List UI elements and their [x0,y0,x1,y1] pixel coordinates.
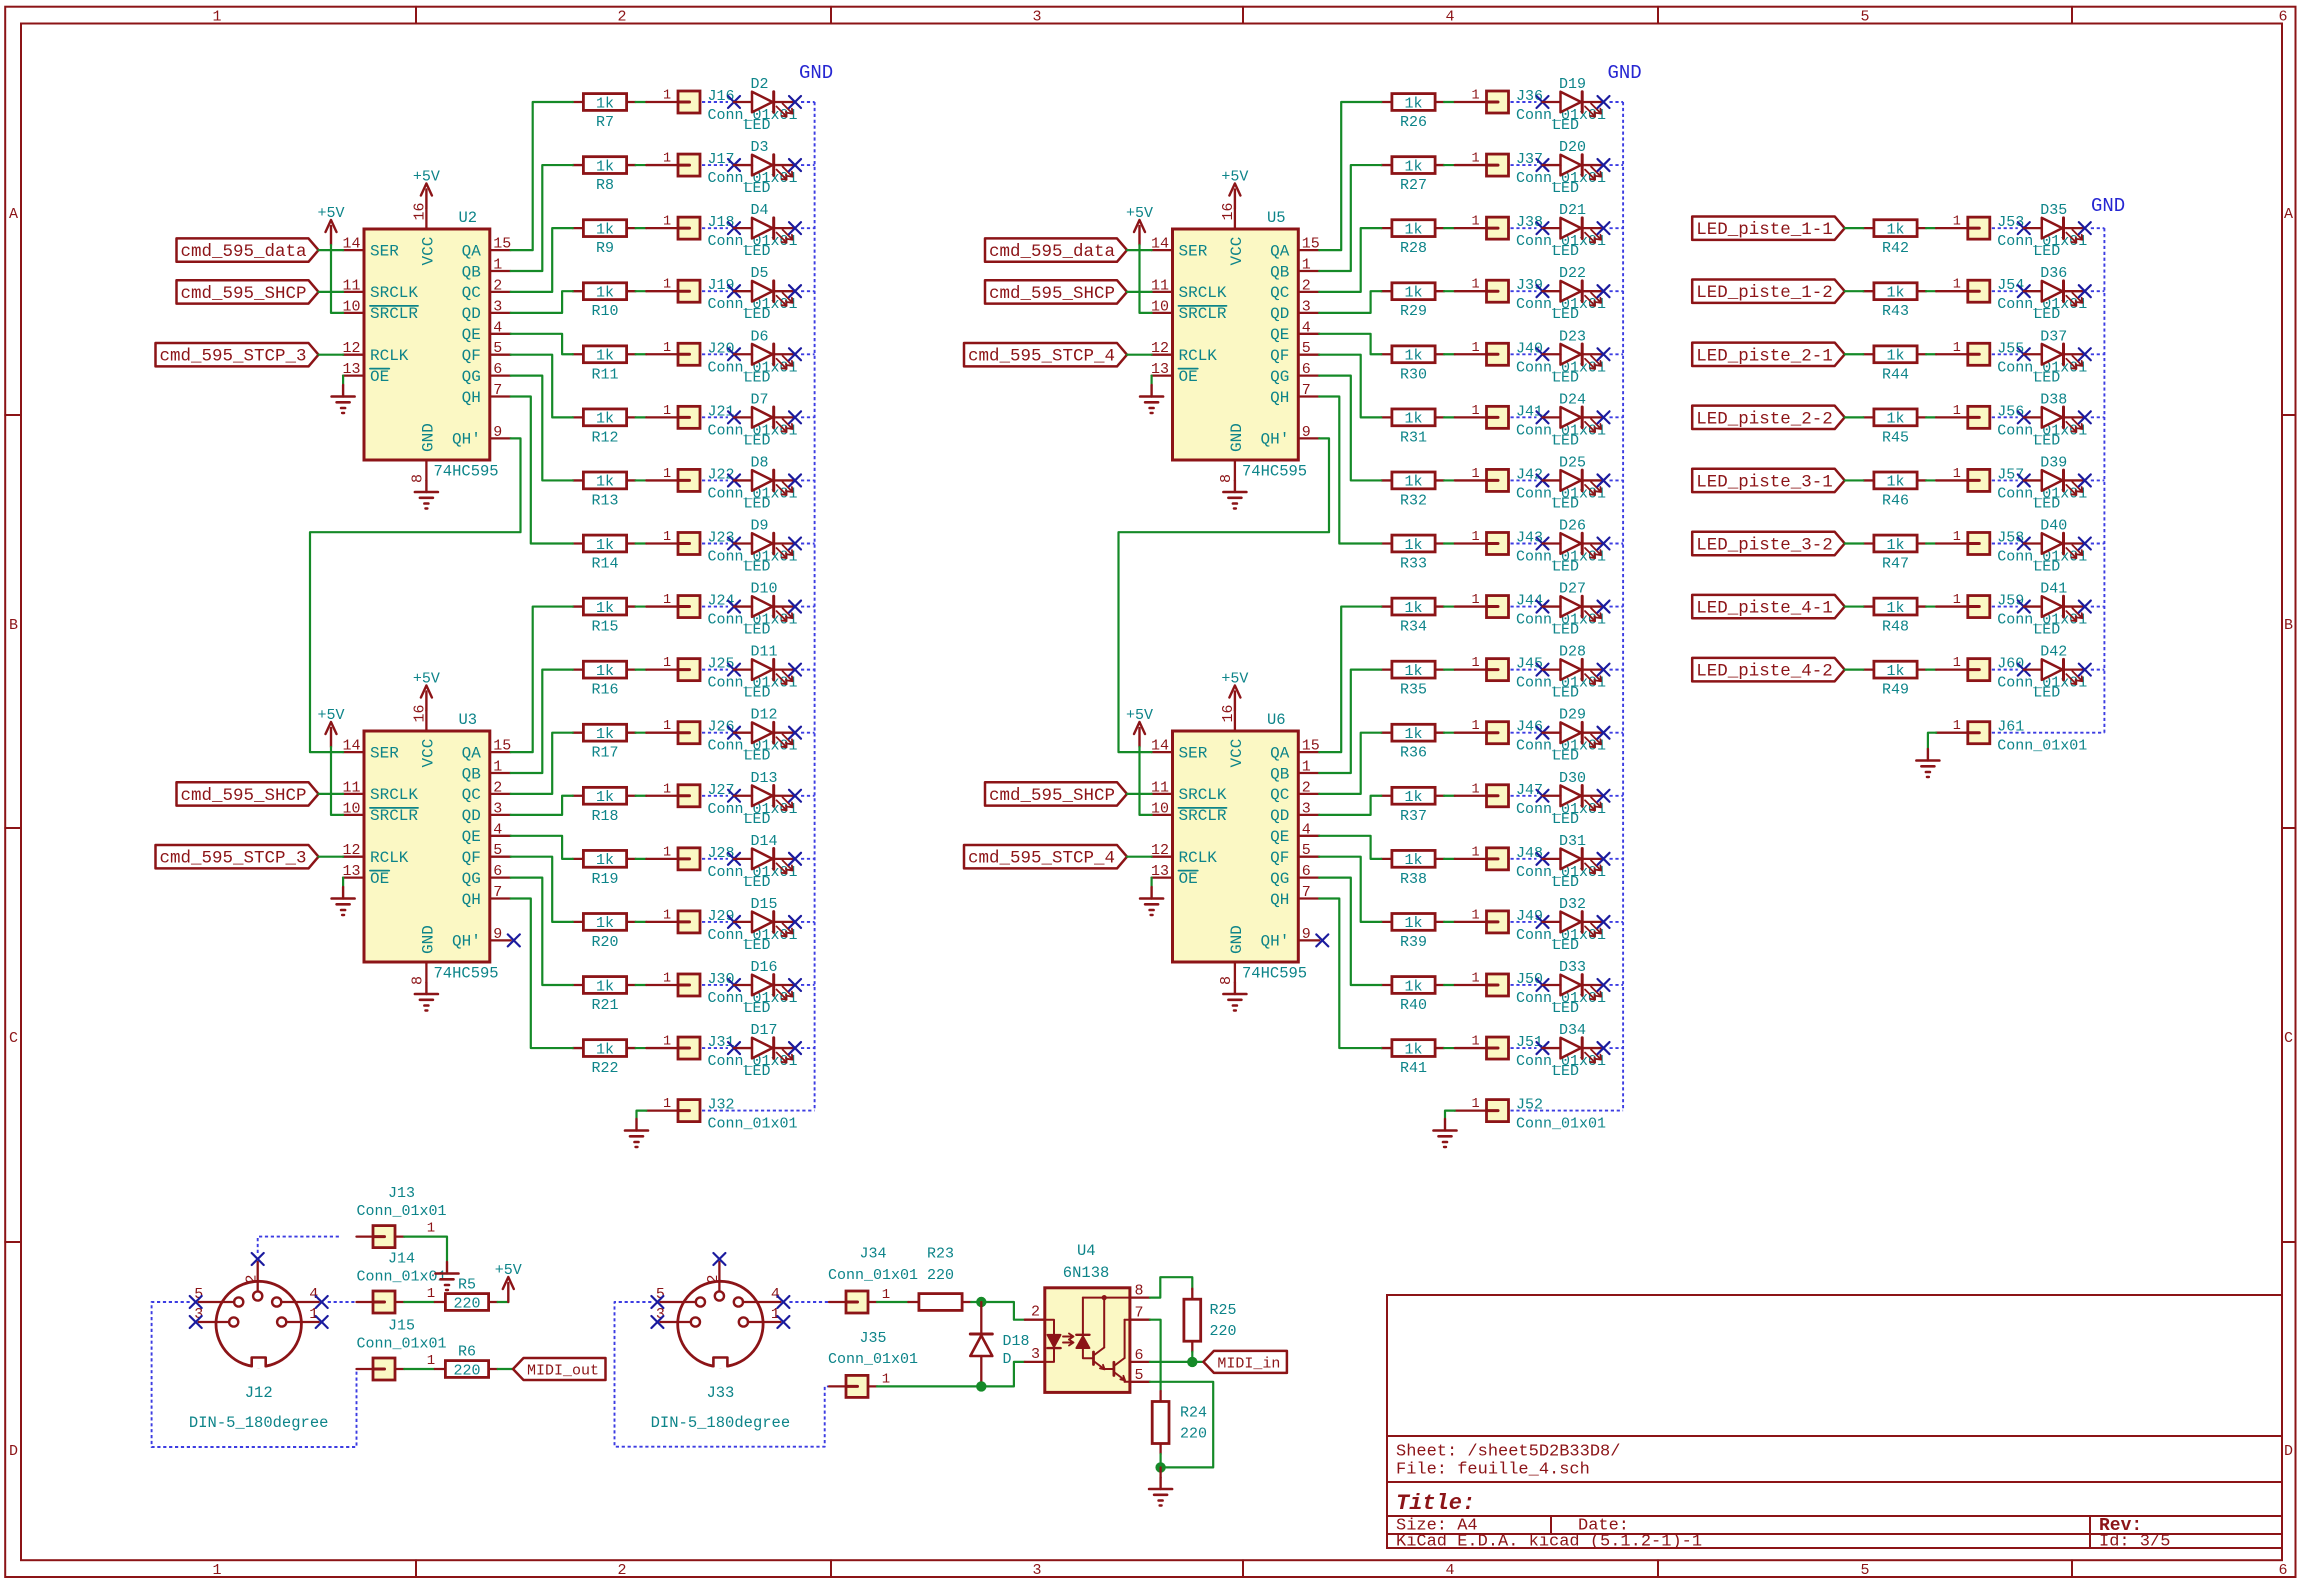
svg-text:D35: D35 [2040,202,2067,219]
svg-text:1: 1 [663,971,671,986]
svg-text:13: 13 [1151,863,1169,880]
wire [511,836,573,859]
svg-text:D16: D16 [751,959,778,976]
power +5V [1126,205,1153,245]
svg-text:QD: QD [1270,305,1289,323]
svg-text:14: 14 [1151,236,1169,253]
LED D24 [1543,391,1604,449]
connector J32 [646,1097,797,1133]
no-connect [2079,474,2091,486]
svg-text:1: 1 [1471,89,1479,104]
svg-text:1k: 1k [1404,978,1422,995]
svg-text:LED: LED [744,937,771,954]
svg-text:1: 1 [663,152,671,167]
svg-text:LED: LED [2033,558,2060,575]
svg-text:1k: 1k [1404,221,1422,238]
svg-text:1: 1 [1471,1097,1479,1112]
no-connect [728,1042,740,1054]
hierarchical label cmd_595_STCP_4 [964,343,1127,367]
wire dashed J44 to D27 [1511,606,1537,608]
connector J53 [1936,214,2087,250]
svg-text:QB: QB [462,263,481,281]
hierarchical label LED_piste_1-2 [1692,280,1845,304]
svg-text:1: 1 [309,1306,318,1323]
junction [976,1297,986,1307]
svg-text:U6: U6 [1267,711,1286,729]
svg-text:QG: QG [462,368,481,386]
svg-text:1: 1 [1302,257,1311,274]
svg-text:12: 12 [342,842,360,859]
wire [1319,733,1381,794]
wire dashed D29 to GND bus [1610,732,1624,734]
svg-text:cmd_595_SHCP: cmd_595_SHCP [989,786,1115,806]
svg-text:74HC595: 74HC595 [1242,965,1307,983]
wire J13 to ground [404,1237,447,1262]
wire R38 to J48 [1444,858,1455,860]
wire dashed D27 to GND bus [1610,606,1624,608]
wire dashed D4 to GND bus [801,227,815,229]
svg-text:U4: U4 [1077,1242,1096,1260]
svg-text:LED: LED [1552,1063,1579,1080]
wire [511,334,573,354]
LED D25 [1543,454,1604,512]
LED D32 [1543,896,1604,954]
svg-text:cmd_595_data: cmd_595_data [989,242,1115,262]
svg-text:J32: J32 [708,1097,735,1114]
svg-text:LED: LED [1552,685,1579,702]
wire dashed D17 to GND bus [801,1047,815,1049]
svg-text:B: B [2284,617,2293,634]
svg-text:GND: GND [1228,925,1246,954]
resistor R46 [1863,472,1926,509]
no-connect [1598,601,1610,613]
svg-text:6: 6 [1302,863,1311,880]
wire [511,165,573,271]
svg-text:D13: D13 [751,770,778,787]
GND net bus (dashed) [2103,228,2105,733]
svg-text:1k: 1k [596,411,614,428]
no-connect [1598,537,1610,549]
svg-text:D7: D7 [751,391,769,408]
wire dashed D23 to GND bus [1610,353,1624,355]
wire dashed J55 to D37 [1992,353,2018,355]
svg-text:QB: QB [1270,263,1289,281]
wire dashed J16 to D2 [702,101,728,103]
svg-text:R38: R38 [1400,871,1427,888]
svg-text:SRCLK: SRCLK [1179,284,1227,302]
no-connect [1598,96,1610,108]
resistor R48 [1863,598,1926,635]
wire dashed D33 to GND bus [1610,984,1624,986]
svg-text:LED: LED [744,558,771,575]
wire J61 to ground [1928,733,1936,749]
svg-text:15: 15 [493,236,511,253]
svg-text:6: 6 [493,361,502,378]
svg-text:R28: R28 [1400,240,1427,257]
svg-text:cmd_595_STCP_4: cmd_595_STCP_4 [968,849,1115,869]
power +5V [1221,671,1248,711]
wire R21 to J30 [636,984,647,986]
wire dashed D28 to GND bus [1610,669,1624,671]
resistor R16 [573,661,636,698]
no-connect [789,916,801,928]
svg-text:D25: D25 [1559,454,1586,471]
svg-text:1k: 1k [596,95,614,112]
wire R40 to J50 [1444,984,1455,986]
svg-text:1: 1 [1471,782,1479,797]
wire [511,878,573,985]
wire dashed D35 to GND bus [2091,227,2105,229]
svg-text:R6: R6 [458,1343,476,1360]
no-connect [789,159,801,171]
svg-text:1k: 1k [596,789,614,806]
no-connect [1537,790,1549,802]
svg-text:QH: QH [462,891,481,909]
svg-text:1: 1 [882,1287,890,1303]
ground [415,983,438,1011]
svg-text:LED: LED [744,685,771,702]
no-connect [1537,222,1549,234]
svg-text:D30: D30 [1559,770,1586,787]
svg-text:R13: R13 [591,492,618,509]
svg-text:1k: 1k [1886,285,1904,302]
connector J22 [646,466,797,502]
svg-text:cmd_595_SHCP: cmd_595_SHCP [181,786,307,806]
wire R32 to J42 [1444,479,1455,481]
resistor R5 [435,1276,498,1312]
svg-text:1: 1 [212,9,221,26]
no-connect [728,474,740,486]
no-connect [1537,348,1549,360]
svg-text:R35: R35 [1400,682,1427,699]
resistor R14 [573,535,636,572]
wire [319,354,344,356]
LED D26 [1543,517,1604,575]
wire [1319,334,1381,354]
svg-text:LED: LED [1552,180,1579,197]
wire [1150,376,1152,385]
svg-text:6: 6 [1302,361,1311,378]
svg-text:D15: D15 [751,896,778,913]
svg-text:6: 6 [2278,9,2287,26]
wire [1127,291,1152,293]
ground [1223,983,1246,1011]
no-connect [2018,474,2030,486]
wire R26 to J36 [1444,101,1455,103]
LED D16 [734,959,795,1017]
svg-text:8: 8 [1218,474,1235,483]
wire dashed D13 to GND bus [801,795,815,797]
no-connect [1537,159,1549,171]
svg-text:RCLK: RCLK [370,849,409,867]
svg-text:C: C [9,1030,18,1047]
svg-text:D40: D40 [2040,517,2067,534]
LED D4 [734,202,795,260]
wire [1319,165,1381,271]
resistor R44 [1863,346,1926,383]
svg-text:11: 11 [1151,779,1169,796]
svg-text:LED: LED [1552,874,1579,891]
svg-text:1k: 1k [1404,789,1422,806]
wire dashed J53 to D35 [1992,227,2018,229]
connector J16 [646,88,797,124]
wire dashed J26 to D12 [702,732,728,734]
ground [436,1262,459,1290]
no-connect [1598,1042,1610,1054]
hierarchical label cmd_595_STCP_3 [156,343,319,367]
svg-text:QH': QH' [1260,933,1289,951]
no-connect [651,1316,663,1328]
svg-text:1k: 1k [1886,221,1904,238]
wire J34 to R23 [877,1301,908,1303]
svg-text:1k: 1k [596,348,614,365]
svg-text:13: 13 [342,361,360,378]
svg-text:220: 220 [1180,1426,1207,1443]
no-connect [713,1253,725,1265]
svg-text:VCC: VCC [419,739,437,768]
no-connect [2079,348,2091,360]
svg-text:7: 7 [1302,382,1311,399]
svg-text:D: D [9,1443,18,1460]
hierarchical label LED_piste_3-2 [1692,532,1845,556]
resistor R47 [1863,535,1926,572]
no-connect [777,1296,789,1308]
svg-text:1k: 1k [596,158,614,175]
wire dashed D11 to GND bus [801,669,815,671]
svg-text:+5V: +5V [413,671,440,688]
svg-text:220: 220 [453,1295,480,1312]
wire dashed J47 to D30 [1511,795,1537,797]
svg-text:1: 1 [1471,404,1479,419]
connector J20 [646,340,797,376]
wire dashed D7 to GND bus [801,416,815,418]
svg-text:J14: J14 [388,1250,415,1267]
svg-text:Conn_01x01: Conn_01x01 [828,1267,918,1284]
wire LED_piste_3-1 to resistor [1845,479,1864,481]
svg-text:D31: D31 [1559,833,1586,850]
hierarchical label cmd_595_data [177,238,319,262]
svg-text:5: 5 [493,842,502,859]
svg-text:QC: QC [462,284,481,302]
svg-text:2: 2 [493,779,502,796]
svg-text:2: 2 [493,277,502,294]
svg-text:LED_piste_4-2: LED_piste_4-2 [1696,662,1833,682]
svg-text:LED: LED [2033,685,2060,702]
no-connect [2018,537,2030,549]
ground [1149,1478,1172,1506]
connector J58 [1936,529,2087,565]
wire dashed J24 to D10 [702,606,728,608]
wire [1319,228,1381,292]
wire dashed D39 to GND bus [2091,479,2105,481]
wire R6 to MIDI_out [498,1368,513,1370]
connector J48 [1455,845,1606,881]
svg-text:10: 10 [342,800,360,817]
no-connect [728,411,740,423]
wire [1140,747,1152,815]
connector J41 [1455,403,1606,439]
connector J14 [356,1250,446,1313]
connector J45 [1455,656,1606,692]
svg-text:10: 10 [1151,800,1169,817]
wire U4 pin6 to MIDI_in [1150,1361,1204,1363]
wire dashed D30 to GND bus [1610,795,1624,797]
svg-text:LED: LED [1552,117,1579,134]
connector J25 [646,656,797,692]
svg-text:4: 4 [1302,821,1311,838]
svg-text:Conn_01x01: Conn_01x01 [1516,1116,1606,1133]
wire dashed D16 to GND bus [801,984,815,986]
wire LED_piste_3-2 to resistor [1845,542,1864,544]
svg-text:cmd_595_STCP_4: cmd_595_STCP_4 [968,347,1115,367]
wire [511,228,573,292]
svg-text:LED: LED [1552,432,1579,449]
wire R8 to J17 [636,164,647,166]
ground [332,887,355,915]
svg-text:LED: LED [744,369,771,386]
svg-text:1: 1 [882,1371,890,1387]
svg-text:QF: QF [1270,849,1289,867]
ground [1434,1119,1457,1147]
svg-text:+5V: +5V [413,169,440,186]
resistor R26 [1381,94,1444,131]
svg-text:1k: 1k [596,221,614,238]
svg-text:QA: QA [1270,242,1290,260]
wire dashed J33 pin5 to J35 [615,1302,830,1447]
no-connect [2079,411,2091,423]
svg-text:LED: LED [1552,811,1579,828]
svg-text:QD: QD [1270,807,1289,825]
no-connect [728,853,740,865]
svg-text:cmd_595_STCP_3: cmd_595_STCP_3 [160,347,307,367]
svg-text:Sheet: /sheet5D2B33D8/: Sheet: /sheet5D2B33D8/ [1396,1443,1620,1462]
wire R29 to J39 [1444,290,1455,292]
LED D38 [2024,391,2085,449]
svg-text:1: 1 [1471,1035,1479,1050]
connector J17 [646,151,797,187]
svg-text:J52: J52 [1516,1097,1543,1114]
LED D39 [2024,454,2085,512]
svg-text:1: 1 [663,530,671,545]
wire dashed D42 to GND bus [2091,669,2105,671]
svg-text:KiCad E.D.A. kicad (5.1.2-1)-: KiCad E.D.A. kicad (5.1.2-1)-1 [1396,1533,1702,1552]
svg-text:1: 1 [1953,215,1961,230]
connector J29 [646,908,797,944]
svg-text:A: A [2284,206,2293,223]
LED D13 [734,770,795,828]
svg-text:LED: LED [1552,622,1579,639]
wire dashed J49 to D32 [1511,921,1537,923]
svg-text:1: 1 [1953,719,1961,734]
svg-text:MIDI_out: MIDI_out [527,1363,599,1380]
svg-text:Conn_01x01: Conn_01x01 [356,1268,446,1285]
wire [1319,355,1381,418]
wire dashed D3 to GND bus [801,164,815,166]
svg-text:QE: QE [1270,828,1289,846]
svg-text:R19: R19 [591,871,618,888]
svg-text:R21: R21 [591,997,618,1014]
wire dashed J31 to D17 [702,1047,728,1049]
wire dashed J45 to D28 [1511,669,1537,671]
wire R48 to J59 [1926,605,1936,607]
svg-text:QH': QH' [1260,431,1289,449]
svg-text:R46: R46 [1882,492,1909,509]
svg-text:QC: QC [1270,786,1289,804]
global label MIDI_in [1203,1351,1287,1373]
svg-text:8: 8 [410,976,427,985]
svg-text:D5: D5 [751,265,769,282]
svg-text:1k: 1k [1886,537,1904,554]
svg-text:LED_piste_1-2: LED_piste_1-2 [1696,283,1833,303]
svg-text:1: 1 [663,845,671,860]
wire dashed D21 to GND bus [1610,227,1624,229]
svg-text:cmd_595_data: cmd_595_data [181,242,307,262]
svg-text:3: 3 [1032,1562,1041,1579]
svg-text:D17: D17 [751,1022,778,1039]
wire [342,376,344,385]
wire LED_piste_2-2 to resistor [1845,416,1864,418]
svg-text:1k: 1k [1404,600,1422,617]
power +5V [413,671,440,711]
svg-text:LED: LED [1552,495,1579,512]
svg-text:J13: J13 [388,1185,415,1202]
svg-text:R20: R20 [591,934,618,951]
wire J14 to R5 [404,1301,435,1303]
LED D9 [734,517,795,575]
wire [1127,793,1152,795]
wire [1319,857,1381,922]
hierarchical label cmd_595_SHCP [985,280,1127,304]
wire [1319,397,1381,544]
svg-text:1k: 1k [1886,411,1904,428]
IC U2 74HC595 [342,202,511,483]
connector J33 DIN-5 [651,1262,791,1432]
svg-text:SER: SER [370,242,399,260]
svg-text:QA: QA [462,242,482,260]
hierarchical label cmd_595_STCP_4 [964,845,1127,869]
svg-text:SRCLK: SRCLK [1179,786,1227,804]
svg-text:1k: 1k [1404,411,1422,428]
connector J23 [646,529,797,565]
connector J50 [1455,971,1606,1007]
svg-text:QH: QH [462,389,481,407]
resistor R36 [1381,724,1444,761]
svg-text:1k: 1k [1886,474,1904,491]
svg-text:LED: LED [2033,369,2060,386]
no-connect [2079,664,2091,676]
LED D20 [1543,139,1604,197]
wire R39 to J49 [1444,921,1455,923]
resistor R9 [573,220,636,257]
svg-text:R39: R39 [1400,934,1427,951]
no-connect [190,1316,202,1328]
svg-text:D4: D4 [751,202,769,219]
hierarchical label cmd_595_STCP_3 [156,845,319,869]
wire dashed J37 to D20 [1511,164,1537,166]
resistor R49 [1863,661,1926,698]
svg-text:QB: QB [462,765,481,783]
connector J18 [646,214,797,250]
svg-text:4: 4 [1445,1562,1454,1579]
no-connect [2018,664,2030,676]
svg-text:D20: D20 [1559,139,1586,156]
hierarchical label cmd_595_SHCP [985,782,1127,806]
svg-text:14: 14 [342,738,360,755]
svg-text:LED_piste_2-2: LED_piste_2-2 [1696,409,1833,429]
wire [511,291,573,313]
svg-text:1: 1 [1471,593,1479,608]
svg-text:LED: LED [744,811,771,828]
